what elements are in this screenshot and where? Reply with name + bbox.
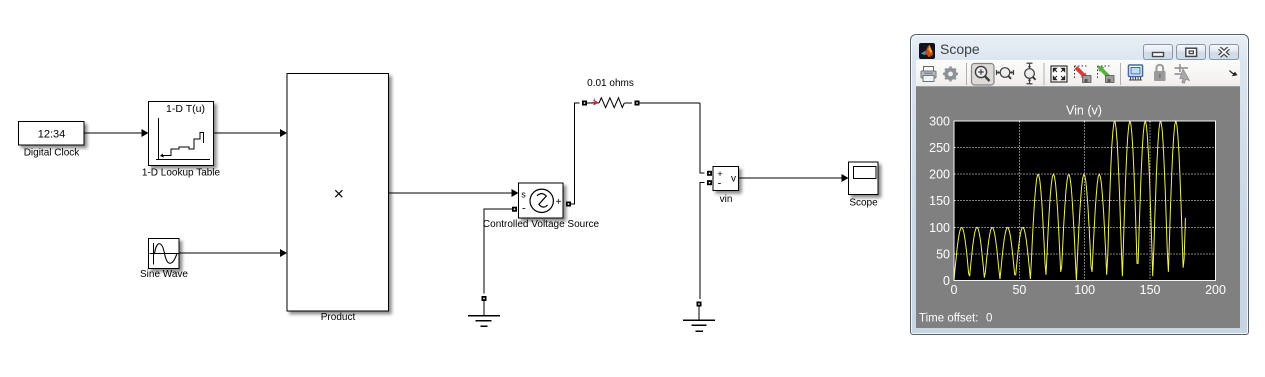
svg-text:Controlled Voltage Source: Controlled Voltage Source	[483, 219, 600, 230]
svg-text:50: 50	[1012, 283, 1026, 297]
svg-text:200: 200	[1205, 283, 1226, 297]
svg-text:100: 100	[1074, 283, 1095, 297]
svg-text:0: 0	[986, 313, 992, 325]
svg-text:s: s	[521, 190, 526, 200]
svg-text:250: 250	[929, 141, 950, 155]
svg-text:300: 300	[929, 115, 950, 129]
svg-text:200: 200	[929, 168, 950, 182]
svg-text:vin: vin	[720, 194, 733, 205]
svg-text:v: v	[731, 174, 736, 185]
svg-text:-: -	[718, 178, 722, 190]
svg-text:0: 0	[943, 274, 950, 288]
svg-text:12:34: 12:34	[38, 129, 66, 141]
svg-text:0: 0	[951, 283, 958, 297]
svg-text:1-D Lookup Table: 1-D Lookup Table	[142, 168, 221, 179]
svg-text:150: 150	[929, 194, 950, 208]
svg-text:100: 100	[929, 221, 950, 235]
svg-text:Time offset:: Time offset:	[919, 313, 978, 325]
svg-text:1-D T(u): 1-D T(u)	[166, 103, 205, 115]
svg-text:+: +	[556, 197, 562, 208]
svg-text:Sine Wave: Sine Wave	[140, 269, 188, 280]
svg-text:50: 50	[936, 247, 950, 261]
svg-text:Vin (v): Vin (v)	[1066, 103, 1102, 117]
svg-text:150: 150	[1140, 283, 1161, 297]
svg-text:Digital Clock: Digital Clock	[24, 148, 81, 159]
svg-text:-: -	[522, 203, 526, 215]
svg-text:Scope: Scope	[849, 198, 878, 209]
svg-text:0.01 ohms: 0.01 ohms	[587, 78, 634, 89]
svg-text:Product: Product	[321, 312, 356, 323]
